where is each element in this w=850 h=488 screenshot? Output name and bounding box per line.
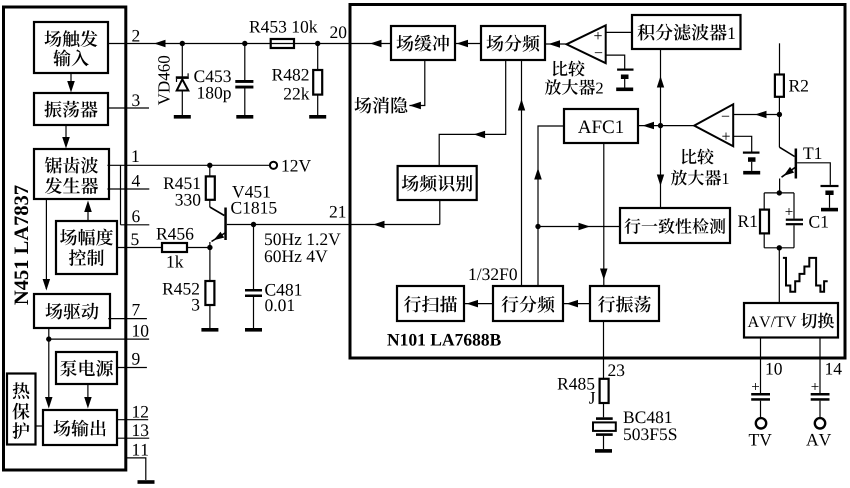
wire comparator1 plus input — [733, 136, 752, 151]
ground C481 — [245, 328, 262, 332]
block 积分滤波器1 — [632, 15, 741, 49]
wire 场分频 to 场缓冲 — [455, 43, 481, 45]
pin 5 wire — [117, 247, 162, 249]
wire arrow 场触发输入 to 振荡器 — [70, 73, 72, 88]
ground R482 — [309, 115, 326, 119]
wire 锯齿波发生器 to 场驱动 — [45, 199, 47, 289]
op-amp comparator 1 triangle — [694, 104, 733, 146]
capacitor C481 — [253, 225, 255, 290]
node junction 场驱动-场输出-pin10 — [46, 336, 51, 341]
wire comparator1 to AFC1 — [638, 125, 694, 127]
V451 labels — [232, 186, 270, 198]
block 锯齿波发生器 — [34, 149, 109, 199]
wire R1 C1 top — [764, 192, 794, 194]
arrowhead into 场驱动 — [43, 279, 51, 291]
resistor R482 — [317, 44, 319, 71]
pin 13 label — [133, 424, 148, 436]
pin 11 label — [133, 444, 148, 456]
block 场幅度控制 — [56, 221, 117, 274]
pin 14 label — [826, 363, 842, 375]
IC N101 LA7688B outline — [350, 5, 845, 359]
R485 label — [558, 378, 595, 390]
resistor R485 — [600, 379, 609, 403]
wire arrow 场幅度控制 to 锯齿波发生器 — [87, 205, 89, 221]
terminal AV — [815, 418, 825, 428]
capacitor TV coupling — [751, 393, 770, 396]
R2 label — [789, 80, 808, 92]
pin 4 wire — [107, 188, 149, 190]
C1 polarity plus — [786, 208, 793, 215]
pin 9 label — [132, 353, 139, 365]
wire comparator1 minus input — [733, 114, 779, 116]
wire base to pin 21 — [227, 224, 440, 226]
wire 行分频 to AFC1 — [538, 126, 564, 286]
pin 11 wire — [126, 458, 146, 480]
ground BC481 — [595, 449, 612, 453]
R453 label — [250, 20, 318, 32]
resistor R456 — [162, 243, 187, 252]
pin 10 wire — [760, 338, 762, 394]
ground VD460 — [174, 115, 191, 119]
resistor R2 — [779, 43, 781, 74]
ground C453 — [236, 115, 253, 119]
wire junction to 行一致性检测 top — [660, 126, 662, 208]
label 场消隐 — [355, 97, 372, 113]
wire junction to 行一致性检测 — [538, 226, 620, 228]
comparator 2 label — [553, 61, 568, 76]
resistor R452 — [209, 248, 211, 282]
ground R452 — [201, 328, 218, 332]
comparator 1 label — [682, 149, 697, 164]
wire 行分频 to 场分频 — [521, 60, 523, 286]
terminal TV — [756, 418, 766, 428]
block 行振荡 — [590, 286, 659, 321]
block 行扫描 — [397, 286, 464, 321]
IC label N101 LA7688B — [387, 334, 501, 346]
pin 12 label — [133, 406, 148, 418]
C453 value label — [194, 70, 231, 82]
pin 3 label — [132, 94, 139, 106]
pin 2 wire — [108, 43, 352, 45]
comparator 1 plus minus — [722, 115, 729, 118]
capacitor C453 — [244, 44, 246, 82]
pin 23 label — [608, 364, 624, 376]
pin 3 wire — [108, 107, 149, 109]
R452 value label — [163, 283, 199, 295]
node pin2-VD460 — [180, 41, 185, 46]
pin 10 wire — [49, 338, 149, 340]
node pin2-C453 — [242, 41, 247, 46]
node pin2-R482 — [315, 41, 320, 46]
zener diode VD460 — [181, 44, 183, 78]
pin 2 label — [132, 30, 139, 42]
voltage annotation 50Hz 60Hz — [265, 233, 341, 245]
wire 行振荡 to pin 23 — [603, 321, 605, 379]
transistor V451 C1815 — [210, 207, 225, 216]
pin 1 wire — [107, 164, 270, 166]
wire comparator2 minus input — [606, 55, 625, 68]
block 行一致性检测 — [620, 208, 730, 243]
node to AV/TV switch — [777, 245, 782, 250]
R456 value label — [157, 228, 194, 240]
wire arrow 泵电源 to 场输出 — [87, 384, 89, 406]
battery T1 base — [821, 185, 839, 187]
staircase waveform — [783, 258, 828, 292]
pin 7 label — [133, 304, 140, 316]
ground comparator1 ref — [743, 171, 760, 175]
node junction AFC1 input — [535, 224, 540, 229]
pin 10 label — [133, 325, 148, 337]
AV label — [806, 434, 831, 446]
wire comparator2 plus input — [606, 31, 632, 33]
node T1 emitter junction — [777, 190, 782, 195]
wire 场频识别 to pin 21 — [439, 200, 441, 225]
block 场驱动 — [34, 294, 110, 328]
wire 行振荡 to 行分频 — [563, 303, 590, 305]
terminal 12V — [270, 162, 277, 169]
node C481 junction — [251, 222, 256, 227]
wire arrow 振荡器 to 锯齿波发生器 — [65, 125, 67, 144]
pin 12 wire — [116, 419, 148, 421]
block 场分频 — [481, 26, 545, 60]
wire junction to 积分滤波器1 — [660, 49, 662, 126]
block 热保护 — [7, 374, 36, 445]
resistor R453 — [271, 39, 294, 48]
op-amp comparator 2 triangle — [567, 25, 606, 63]
ground pin 11 — [138, 480, 155, 484]
wire comparator2 to 场分频 — [545, 43, 567, 45]
TV label — [749, 434, 772, 446]
battery reference comparator1 — [743, 152, 760, 154]
block 场触发输入 — [34, 22, 108, 73]
pin 2 arrowhead — [154, 40, 166, 47]
node emitter junction — [207, 245, 212, 250]
battery reference comparator2 — [617, 69, 633, 71]
TV cap polarity — [752, 383, 759, 390]
pin 9 wire — [117, 367, 147, 369]
block AFC1 — [564, 109, 638, 143]
ground T1 battery — [821, 208, 838, 212]
wire to AV/TV switch — [778, 248, 780, 303]
IC N451 LA7837 outline — [4, 7, 126, 470]
block 泵电源 — [56, 352, 117, 384]
wire 场分频 to 场频识别 — [439, 60, 506, 166]
block 场输出 — [43, 410, 117, 445]
wire 热保护 to 场输出 — [36, 425, 44, 427]
block 振荡器 — [34, 93, 108, 125]
capacitor C1 — [793, 193, 795, 219]
VD460 label — [158, 56, 170, 105]
pin 14 wire — [819, 338, 821, 394]
resistor R1 — [763, 193, 765, 210]
transistor T1 — [779, 147, 794, 156]
resistor R451 — [209, 165, 211, 176]
pin 21 label — [330, 206, 346, 218]
crystal BC481 — [596, 417, 613, 420]
block 场频识别 — [398, 166, 477, 200]
capacitor AV coupling — [811, 393, 830, 396]
arrowhead into 场缓冲 wire — [350, 43, 391, 45]
node R2 junction — [777, 112, 782, 117]
wire AFC1 to 行振荡 — [603, 143, 605, 286]
pin 4 label — [132, 175, 140, 187]
T1 label — [803, 147, 821, 159]
AV cap polarity — [812, 383, 819, 390]
pin 10 label — [767, 363, 782, 375]
wire 场缓冲 to 场消隐 — [409, 60, 424, 106]
wire R1 C1 bottom — [764, 247, 794, 249]
pin 7 wire — [108, 318, 147, 320]
wire T1 base to battery — [797, 163, 830, 185]
pin 5 label — [132, 234, 139, 246]
IC label N451 LA7837 — [14, 185, 28, 304]
BC481 label — [624, 411, 672, 423]
pin 1 label — [133, 150, 139, 162]
pin 13 wire — [116, 437, 149, 439]
R451 value label — [164, 177, 200, 189]
comparator 2 plus minus — [594, 32, 601, 39]
block 行分频 — [493, 286, 563, 321]
ground comparator2 ref — [616, 88, 633, 92]
block 场缓冲 — [391, 26, 455, 60]
wire 场驱动 to 场输出 — [48, 328, 50, 406]
node junction comparator1 output — [658, 123, 663, 128]
pin 21 arrowhead — [373, 221, 385, 228]
pin 6 label — [132, 210, 139, 222]
C481 value label — [265, 284, 301, 296]
R482 value label — [272, 69, 308, 81]
pin 6 wire — [121, 224, 150, 226]
C1 label — [809, 216, 828, 228]
pin 20 label — [330, 26, 346, 38]
label 1/32F0 — [470, 268, 517, 280]
node pin1-R451 — [207, 163, 212, 168]
pin 6 branch wire — [120, 165, 122, 225]
R1 label — [738, 215, 757, 227]
wire 行分频 to 行扫描 — [464, 303, 493, 305]
block AV/TV 切换 — [744, 303, 838, 338]
